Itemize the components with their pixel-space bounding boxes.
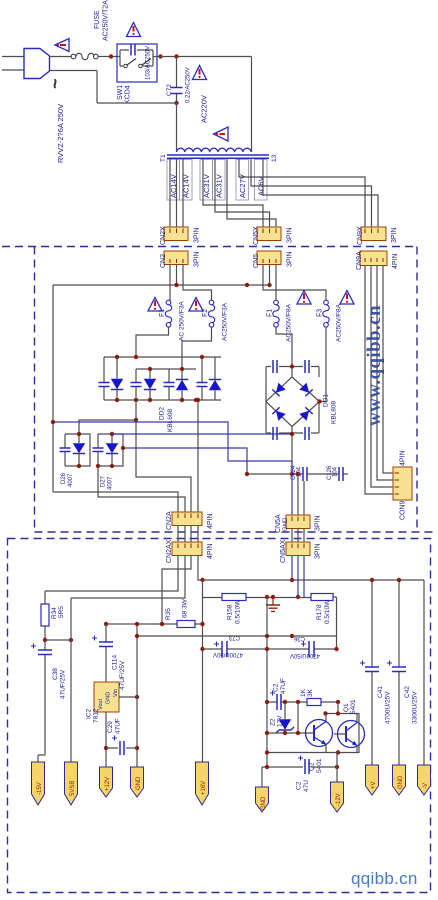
fuse F3 xyxy=(323,300,329,327)
svg-text:AC250V/F8A: AC250V/F8A xyxy=(336,303,343,342)
wire F1 to DD2 top bus xyxy=(136,327,169,357)
wire CN2AX pin4 to long rail xyxy=(198,556,424,581)
svg-text:Vin: Vin xyxy=(113,689,119,697)
node junction rail A xyxy=(51,420,55,424)
wire blue rail B xyxy=(112,433,292,435)
svg-text:-V: -V xyxy=(423,783,429,789)
svg-text:4007: 4007 xyxy=(108,476,114,490)
svg-text:AC 250V/F3A: AC 250V/F3A xyxy=(179,301,186,341)
wire CN5 pin1 to F3 xyxy=(263,265,326,301)
svg-text:47UF/25V: 47UF/25V xyxy=(60,669,67,699)
connector CN2AX xyxy=(172,542,202,556)
capacitor bridge bottom 1 xyxy=(273,427,277,440)
wire DD2 bottom bus xyxy=(104,399,221,401)
output flag GND c xyxy=(393,765,406,795)
svg-text:4700U/50V: 4700U/50V xyxy=(213,651,243,657)
svg-text:+V: +V xyxy=(371,781,377,789)
node junction 474 left xyxy=(245,472,249,476)
svg-text:C36: C36 xyxy=(293,635,305,641)
transistor loop box xyxy=(325,714,359,753)
svg-text:CN9X: CN9X xyxy=(357,226,364,245)
capacitor C42 xyxy=(398,580,400,765)
svg-text:0.5/10W: 0.5/10W xyxy=(235,599,242,624)
wire CN2AX pin3 to R35 rail xyxy=(162,556,191,625)
node junction rail C xyxy=(121,446,125,450)
wire fuse to switch xyxy=(98,56,117,58)
wire bridge output down xyxy=(291,427,293,475)
regulator IC2 7812 xyxy=(94,682,119,712)
output flag -V b xyxy=(331,782,344,812)
node junctions D26 D27 xyxy=(77,432,81,436)
node junction 636 c xyxy=(290,634,294,638)
wire rail 767 xyxy=(262,766,337,768)
wire CN5A to CN5AX xyxy=(292,529,304,543)
svg-text:4700U/25V: 4700U/25V xyxy=(385,691,392,724)
zener ZD1 12V xyxy=(284,702,286,733)
output flag 5VSB xyxy=(65,762,78,805)
node junction mid rail CN2 xyxy=(174,283,178,287)
wire switch to transformer primary right xyxy=(157,57,252,153)
wire to flag2 xyxy=(70,598,72,762)
capacitor C2 47U xyxy=(305,759,309,774)
dashed middle block right edge xyxy=(416,247,418,533)
capacitor DD2 snubber 2 xyxy=(135,369,137,400)
output flag +12V xyxy=(100,767,113,797)
connector CON9 xyxy=(393,467,412,500)
wire base rail xyxy=(267,732,314,734)
svg-text:F2: F2 xyxy=(202,309,209,317)
wire vertical 267 xyxy=(266,597,268,767)
svg-text:3K: 3K xyxy=(307,688,314,697)
wire bridge bottom rail ends xyxy=(266,402,319,434)
svg-text:AC31V: AC31V xyxy=(215,174,224,198)
capacitor C74 inside switch xyxy=(131,45,135,56)
wire CN5AX pin2 down xyxy=(297,556,299,598)
svg-text:CN2X: CN2X xyxy=(160,226,167,245)
wire branch to R158 xyxy=(202,580,204,649)
svg-text:DD2: DD2 xyxy=(159,407,166,420)
warning triangle near plug xyxy=(55,39,69,52)
connector CN9X xyxy=(361,227,386,241)
wire tap3 to CN2X xyxy=(182,158,184,227)
wire tap4 to CN5X xyxy=(203,158,263,227)
wire tap2 to CN2X xyxy=(176,158,178,227)
node junction bridge right xyxy=(317,399,321,403)
svg-text:C72: C72 xyxy=(166,84,173,96)
resistor R34 xyxy=(44,591,46,640)
node junction 267 top xyxy=(265,595,269,599)
svg-text:CN2AX: CN2AX xyxy=(166,539,173,563)
node junction box top b xyxy=(323,711,327,715)
capacitor C126 xyxy=(339,467,343,481)
wire tap5 to CN5X xyxy=(215,158,270,227)
node junction 636 b xyxy=(265,634,269,638)
wire mains prong top xyxy=(2,56,24,58)
wire IC2 out down xyxy=(105,712,107,767)
node junction B rail xyxy=(290,432,294,436)
svg-text:3PIN: 3PIN xyxy=(287,227,294,243)
wire box bottom to 767 xyxy=(336,752,338,767)
node junction 748 right xyxy=(135,746,139,750)
node junction 624 R35 feed xyxy=(160,622,164,626)
wire flag6 stem xyxy=(261,767,263,787)
wire tap9 to CN9X xyxy=(263,158,378,227)
wire mains prong bottom xyxy=(2,69,24,71)
wire output rail 474 xyxy=(247,473,348,475)
diode DD2-2 xyxy=(149,369,151,400)
wire to flag5 xyxy=(202,649,204,762)
resistor R35 xyxy=(177,621,195,628)
fuse F2 xyxy=(208,300,214,327)
fuse F1 right xyxy=(273,300,279,327)
svg-text:DD1: DD1 xyxy=(323,394,330,407)
svg-text:D26: D26 xyxy=(61,472,67,484)
capacitor C73 xyxy=(222,641,227,657)
wire DD2 to CN2A pin3 xyxy=(136,420,191,512)
switch contacts xyxy=(124,59,151,68)
wire CN9A pin1 to CON9 xyxy=(365,266,393,495)
warning triangle F2 xyxy=(189,298,203,312)
svg-text:5VSB: 5VSB xyxy=(70,781,76,796)
node junction mid rail CN5 xyxy=(267,283,271,287)
svg-text:7812: 7812 xyxy=(93,708,100,723)
wire CN2 pin1 to F1 xyxy=(169,265,171,301)
wire left vertical xyxy=(52,285,54,492)
wire F2 to DD2 inner bus xyxy=(182,327,212,369)
svg-text:C38: C38 xyxy=(52,668,59,680)
svg-text:12V: 12V xyxy=(277,715,284,727)
node junction 649 mid xyxy=(265,647,269,651)
wire CN9A pin2 to CON9 xyxy=(371,266,393,488)
svg-text:4700U/50V: 4700U/50V xyxy=(290,652,320,658)
node junction mid rail right xyxy=(245,283,249,287)
diode DD2-3 xyxy=(181,369,183,400)
svg-text:47UF: 47UF xyxy=(280,678,287,694)
diode D26 xyxy=(78,434,80,466)
capacitor DD2 snubber 1 xyxy=(103,357,105,400)
svg-text:F1: F1 xyxy=(267,309,274,317)
fuse F1 xyxy=(165,300,171,327)
svg-text:CN5A: CN5A xyxy=(275,514,282,533)
svg-text:3PIN: 3PIN xyxy=(287,251,294,267)
svg-text:GND: GND xyxy=(261,796,267,810)
svg-text:GND: GND xyxy=(136,776,142,790)
svg-text:C42: C42 xyxy=(404,686,411,698)
node junction zener top xyxy=(283,700,287,704)
node junction IC2 gnd xyxy=(135,695,139,699)
wire DD2 inner bus xyxy=(136,368,196,370)
node junction C41 xyxy=(370,578,374,582)
node junction base column xyxy=(296,700,300,704)
diode D27 xyxy=(111,434,113,466)
svg-text:AC27V: AC27V xyxy=(238,174,247,198)
node junction base rail left xyxy=(265,731,269,735)
svg-text:4PIN: 4PIN xyxy=(207,513,214,529)
connector CN2A xyxy=(172,512,202,526)
diode DD1 b xyxy=(299,383,312,396)
svg-text:3PIN: 3PIN xyxy=(315,543,322,559)
node junction xyxy=(134,418,138,422)
svg-text:C2: C2 xyxy=(273,683,280,692)
wire rail 702 xyxy=(267,701,338,703)
wire DD2 top bus xyxy=(104,356,221,358)
wire rail 752 xyxy=(267,752,325,754)
node junction xyxy=(109,54,113,58)
svg-text:R178: R178 xyxy=(316,604,323,620)
capacitor C41 xyxy=(371,580,373,765)
node junction 137 top xyxy=(135,622,139,626)
svg-text:+16V: +16V xyxy=(201,781,207,795)
output flag GND right xyxy=(256,787,269,812)
wire rail 597 xyxy=(203,597,312,599)
svg-text:CN2: CN2 xyxy=(160,254,167,268)
wire CN2AX pin1 left rail xyxy=(45,556,178,592)
wire tap1 to CN2X xyxy=(169,158,171,227)
svg-text:qqibb.cn: qqibb.cn xyxy=(351,869,418,888)
wire rail 649 xyxy=(203,648,337,650)
svg-text:3PIN: 3PIN xyxy=(194,227,201,243)
svg-text:C73: C73 xyxy=(228,634,240,640)
svg-text:IC2: IC2 xyxy=(86,709,93,720)
capacitor DD2 snubber 4 xyxy=(201,357,203,400)
wire CN2 pin2 to mid rail xyxy=(176,265,178,286)
wire tap6 to CN5X xyxy=(227,158,276,227)
dashed bottom block xyxy=(8,539,431,893)
node junction 640 right xyxy=(69,638,73,642)
wire blue rail C xyxy=(123,448,247,474)
output flag +16V xyxy=(196,762,209,805)
svg-text:GND: GND xyxy=(106,692,112,704)
warning triangle AC220V xyxy=(193,66,207,80)
transformer T1 core xyxy=(167,155,269,158)
node junction 474 bridge xyxy=(290,472,294,476)
node junction 640 left xyxy=(43,638,47,642)
wire rail to CN5A pin2 xyxy=(297,474,299,515)
svg-text:AC250V/T2A: AC250V/T2A xyxy=(103,0,110,41)
wire vertical 137 xyxy=(136,624,138,767)
node junction bridge top xyxy=(290,364,294,368)
switch SW1 KCD4 box xyxy=(117,44,157,82)
svg-text:4PIN: 4PIN xyxy=(392,253,399,269)
wire CN9A pin3 to CON9 xyxy=(377,266,393,481)
node junction C72 bottom xyxy=(174,101,178,105)
svg-text:www.qqibb.cn: www.qqibb.cn xyxy=(364,305,385,426)
node junction C42 xyxy=(397,578,401,582)
wire CN9A pin4 to CON9 xyxy=(383,266,393,474)
wire switch internal xyxy=(117,50,157,66)
node junction 767 a xyxy=(265,765,269,769)
wire bridge cap rail ends xyxy=(266,367,319,402)
connector CN5 xyxy=(257,251,281,265)
svg-text:KBL808: KBL808 xyxy=(331,400,338,424)
connector CN5A xyxy=(286,515,310,529)
svg-text:5R5: 5R5 xyxy=(58,606,65,618)
wire blue rail A xyxy=(53,422,292,461)
svg-text:GND: GND xyxy=(283,517,289,531)
svg-text:0.22/AC250V: 0.22/AC250V xyxy=(186,67,192,103)
svg-text:5401: 5401 xyxy=(316,758,323,773)
wire plug to fuse xyxy=(50,56,72,58)
svg-text:AC220V: AC220V xyxy=(200,95,209,123)
svg-text:103/AC250V: 103/AC250V xyxy=(146,46,152,80)
connector CN2 xyxy=(164,251,188,265)
wire mid rail xyxy=(53,284,270,286)
wire F1 right to bridge top xyxy=(276,327,292,377)
svg-text:3PIN: 3PIN xyxy=(194,251,201,267)
svg-text:3PIN: 3PIN xyxy=(391,227,398,243)
wire rail 636 xyxy=(137,635,337,637)
transistor Q1 xyxy=(334,714,365,753)
wire base column xyxy=(297,702,299,733)
svg-text:3PIN: 3PIN xyxy=(315,515,322,531)
tap label box AC14V (2) xyxy=(180,160,193,201)
wire CN2AX pin2 left rail xyxy=(71,556,185,599)
node junction 702 left xyxy=(265,700,269,704)
wire CN5AX pin3 down xyxy=(303,556,305,598)
wire bridge top cap rail xyxy=(266,366,319,368)
capacitor C52 xyxy=(277,694,281,710)
tap label box AC31V (2) xyxy=(213,160,226,201)
capacitor C114 xyxy=(105,624,107,682)
svg-text:R35: R35 xyxy=(165,608,172,620)
svg-text:RVVZ-2?6A 250V: RVVZ-2?6A 250V xyxy=(56,104,65,163)
node junction zener bottom xyxy=(283,731,287,735)
svg-text:47UF/25V: 47UF/25V xyxy=(119,660,126,690)
node junction xyxy=(196,398,200,402)
svg-text:47UF: 47UF xyxy=(115,718,122,734)
svg-text:T1: T1 xyxy=(160,154,167,162)
node junction base rail mid xyxy=(296,731,300,735)
capacitor C38 xyxy=(38,640,45,762)
svg-text:-12V: -12V xyxy=(336,793,342,806)
svg-text:68 3W: 68 3W xyxy=(182,598,189,618)
node junction 748 left xyxy=(104,746,108,750)
warning triangle F3 xyxy=(340,291,354,305)
svg-text:5401: 5401 xyxy=(350,699,357,714)
wire left rail to CN2A pin1 xyxy=(53,492,178,512)
capacitor C36 xyxy=(309,641,314,657)
wire rail 624 xyxy=(106,623,177,625)
svg-text:D27: D27 xyxy=(101,475,107,487)
diode DD1 c xyxy=(272,407,285,420)
capacitor C72 xyxy=(171,88,183,94)
svg-text:47U: 47U xyxy=(303,780,310,792)
svg-text:C2: C2 xyxy=(296,781,303,790)
wire bridge bottom cap rail xyxy=(266,432,319,434)
diode DD2-1 xyxy=(116,357,118,400)
svg-text:C114: C114 xyxy=(112,655,119,670)
svg-text:AC250V/F3A: AC250V/F3A xyxy=(222,302,229,341)
capacitor C29 xyxy=(120,741,124,755)
svg-text:KCD4: KCD4 xyxy=(125,85,132,104)
svg-text:Vout: Vout xyxy=(98,699,104,710)
node junctions DD2 xyxy=(115,355,119,359)
svg-text:GND: GND xyxy=(398,775,404,789)
warning triangle above switch xyxy=(127,23,141,37)
dashed middle block left edge xyxy=(34,247,36,533)
node junction switch out xyxy=(158,54,162,58)
wire R178 down xyxy=(336,597,338,649)
svg-text:4PIN: 4PIN xyxy=(207,543,214,559)
tap label box AC31V xyxy=(200,160,213,201)
diode DD1 a xyxy=(272,383,285,396)
capacitor C124 xyxy=(303,467,307,481)
resistor R1 3K xyxy=(307,699,321,706)
diode D27 loop xyxy=(98,434,123,466)
resistor R178 xyxy=(311,594,333,601)
node junction rail 580 branch xyxy=(200,578,204,582)
svg-text:C41: C41 xyxy=(377,686,384,698)
wire CN5 pin3 to F1 xyxy=(275,265,277,301)
tap label box AC27V xyxy=(236,160,249,201)
svg-text:-15V: -15V xyxy=(37,782,43,795)
connector CN5X xyxy=(257,227,281,241)
wire CN2A to CN2AX xyxy=(178,526,198,543)
svg-text:CN5X: CN5X xyxy=(253,226,260,245)
output flag +V xyxy=(366,765,379,795)
wire DD2 to CN2A pin4 xyxy=(197,400,199,512)
svg-text:CN5: CN5 xyxy=(253,254,260,268)
connector CN5AX xyxy=(286,542,310,556)
wire CN5 pin2 to mid rail xyxy=(269,265,271,286)
capacitor DD2 snubber 3 xyxy=(168,369,170,400)
node junction 649 xyxy=(200,647,204,651)
tap label box AC14V xyxy=(167,160,180,201)
warning triangle F1 xyxy=(148,298,162,312)
wire flag8 stem xyxy=(336,767,338,782)
svg-text:Q1: Q1 xyxy=(343,703,350,712)
node junction xyxy=(296,472,300,476)
wire rail to CN5A pin3 xyxy=(303,481,305,515)
svg-text:1K: 1K xyxy=(300,688,307,697)
transistor Q2 xyxy=(306,714,333,753)
svg-text:CN9A: CN9A xyxy=(356,251,363,270)
svg-text:13: 13 xyxy=(271,154,278,162)
wire IC2 gnd pin xyxy=(119,696,137,698)
svg-text:F3: F3 xyxy=(317,309,324,317)
node junction 752 left xyxy=(265,750,269,754)
node junction 649 right xyxy=(334,647,338,651)
svg-text:CON9: CON9 xyxy=(400,500,407,520)
capacitor bridge top 2 xyxy=(305,360,309,373)
node junction R1 right xyxy=(336,700,340,704)
svg-text:SW1: SW1 xyxy=(117,85,124,100)
capacitor bridge bottom 2 xyxy=(305,427,309,440)
wire DD2 to D26 xyxy=(79,400,136,434)
ground symbol xyxy=(266,597,280,611)
svg-text:+12V: +12V xyxy=(105,777,111,791)
node junction C72 top xyxy=(174,54,178,58)
output flag GND left xyxy=(131,767,144,797)
dashed middle block bottom edge xyxy=(35,531,437,533)
tap label box AC6V xyxy=(255,160,268,201)
svg-text:C29: C29 xyxy=(107,721,114,733)
warning triangle F1 right xyxy=(297,291,311,305)
svg-text:4PIN: 4PIN xyxy=(400,450,407,466)
wire plug bottom to primary left xyxy=(50,71,177,153)
capacitor bridge top 1 xyxy=(273,360,277,373)
output flag -V xyxy=(418,765,431,795)
svg-text:R34: R34 xyxy=(51,607,58,619)
wire tap8 to CN9X xyxy=(251,158,372,227)
wire rail 640 xyxy=(45,639,71,641)
svg-text:FUSE: FUSE xyxy=(94,10,101,29)
node junction box top a xyxy=(336,711,340,715)
node junction 767 b xyxy=(335,765,339,769)
wire CN5AX pin1 down xyxy=(291,556,293,581)
svg-text:CN2A: CN2A xyxy=(166,511,173,530)
svg-text:Z2: Z2 xyxy=(270,718,277,726)
